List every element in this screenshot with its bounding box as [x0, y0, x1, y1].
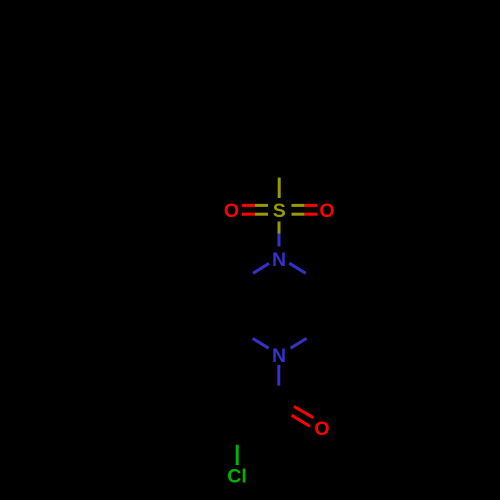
wire N4 to C3b bond (N half, blue, up-right) — [291, 338, 307, 348]
svg-text:O: O — [224, 200, 239, 222]
wire S to phenyl C1 bond (S half, olive) — [278, 178, 281, 198]
wire S=O right double bond, bottom line — [292, 213, 305, 216]
svg-text:N: N — [272, 249, 286, 271]
wire N1 to C2b bond (N half, blue, down-right) — [289, 263, 306, 273]
wire S=O left double bond, bottom line — [242, 213, 255, 216]
wire S to N1 bond (blue half) — [278, 234, 281, 247]
wire N4 to C3a bond (N half, blue, up-left) — [253, 338, 269, 348]
svg-text:Cl: Cl — [227, 466, 247, 488]
wire S=O left double bond (O half red, S half olive), top line — [242, 204, 255, 207]
wire C=O carbonyl double bond (O half red), upper line — [294, 406, 313, 417]
svg-text:O: O — [319, 200, 334, 222]
wire C=O carbonyl double bond (O half red), lower line — [292, 415, 310, 426]
svg-text:S: S — [273, 200, 286, 222]
wire CH2 to Cl bond (Cl half, green) — [236, 445, 239, 465]
wire N4 to carbonyl C bond (N half, blue) — [277, 365, 280, 386]
wire N1 to C2a bond (N half, blue, down-left) — [253, 263, 269, 273]
svg-text:O: O — [314, 418, 329, 440]
svg-text:N: N — [272, 345, 286, 367]
wire S to N1 bond (olive half) — [278, 222, 281, 234]
wire S=O right double bond, top line — [292, 204, 305, 207]
